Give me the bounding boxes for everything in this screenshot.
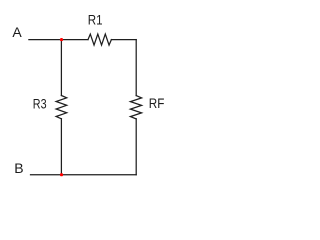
svg-text:B: B	[14, 160, 23, 176]
resistor R3	[56, 96, 67, 119]
wire from R1 to top-right corner	[111, 39, 136, 41]
svg-text:R3: R3	[33, 96, 47, 112]
wire left branch upper (junction A down to R3)	[60, 40, 62, 96]
svg-text:A: A	[12, 24, 22, 40]
junction dot at node A branch	[60, 38, 63, 41]
svg-text:R1: R1	[88, 12, 103, 28]
wire right branch upper (top corner down to RF)	[135, 40, 137, 96]
svg-text:RF: RF	[149, 95, 165, 111]
wire right branch lower (RF down to bottom corner)	[135, 119, 137, 175]
wire left branch lower (R3 down to bottom junction)	[60, 119, 62, 175]
junction dot at node B branch	[60, 173, 63, 176]
wire from node B along bottom to right branch	[31, 174, 137, 176]
resistor R1	[88, 34, 111, 45]
wire from node A to junction and R1	[29, 39, 88, 41]
resistor RF	[130, 96, 141, 119]
